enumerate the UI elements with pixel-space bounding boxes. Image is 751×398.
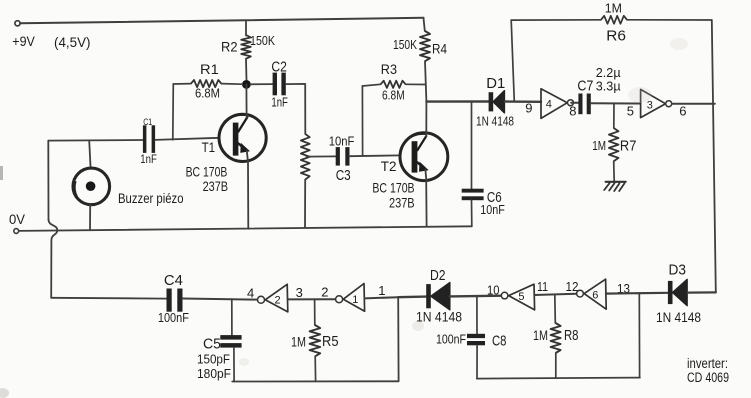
node R3 left drop junction [361, 86, 363, 156]
ground symbol [604, 182, 626, 191]
svg-text:Buzzer piézo: Buzzer piézo [118, 191, 184, 206]
label R2 [221, 38, 238, 54]
capacitor C6 [462, 189, 484, 201]
resistor R2 [241, 22, 251, 81]
wire C2 right to resistor drop [286, 84, 305, 134]
wire right feedback vertical [712, 20, 716, 292]
transistor T2 [400, 133, 448, 181]
label pin 6 [679, 104, 686, 119]
wire resistor to C3 [307, 155, 336, 157]
resistor R3 [362, 81, 425, 88]
label 0V [9, 211, 26, 227]
label pin 5 [627, 104, 634, 119]
resistor R8 branch [551, 295, 561, 378]
op-amp inverter U1B pins 5-6 [641, 89, 672, 117]
svg-text:6.8M: 6.8M [382, 89, 405, 103]
label 237B T2 [389, 194, 415, 210]
svg-text:237B: 237B [203, 178, 229, 194]
wire D2 to inverter pin 10 [450, 295, 502, 298]
svg-text:180pF: 180pF [197, 366, 231, 381]
svg-text:4: 4 [247, 285, 254, 300]
label (4,5V) [54, 34, 91, 50]
label R7 [620, 139, 637, 155]
svg-text:2: 2 [275, 295, 281, 307]
svg-text:C7: C7 [577, 79, 593, 95]
label 1M R5 [291, 333, 306, 349]
svg-text:R3: R3 [381, 61, 397, 77]
svg-text:11: 11 [537, 279, 548, 294]
capacitor C2 [273, 73, 286, 96]
label pin 12 [566, 279, 579, 294]
svg-text:T2: T2 [381, 158, 397, 174]
diode D2 [426, 283, 450, 310]
wire D1 to inverter U4 pin 9 [505, 100, 541, 103]
label C6 [487, 190, 502, 206]
svg-text:T1: T1 [202, 139, 216, 155]
label 150K R4 [393, 38, 418, 52]
resistor to 0V (unlabeled) [301, 134, 310, 180]
svg-text:C5: C5 [203, 337, 221, 353]
wire inverter 3 to pin 2 [288, 298, 336, 300]
label T1 [202, 139, 216, 155]
label pin 13 [617, 281, 630, 296]
wire dot to C2 [250, 83, 272, 85]
svg-text:3.3µ: 3.3µ [596, 80, 621, 94]
wire bottom-right rail [477, 378, 640, 379]
svg-text:1N 4148: 1N 4148 [476, 114, 514, 129]
capacitor C5 branch [231, 299, 233, 335]
label 6.8M R1 [195, 87, 220, 101]
label 10nF C6 [480, 203, 505, 217]
label C7 [577, 79, 593, 95]
label 10nF C3 [329, 135, 355, 149]
capacitor C7 [578, 94, 590, 115]
capacitor C8 [467, 334, 485, 346]
svg-text:C2: C2 [271, 59, 287, 75]
label 1N 4148 D1 [476, 114, 514, 129]
wire bottom-left rail [232, 297, 398, 381]
svg-text:R5: R5 [322, 334, 339, 350]
wire R1 left drop [172, 84, 175, 140]
capacitor C1 [143, 125, 155, 153]
label pin 4 [247, 285, 254, 300]
resistor R5 branch [310, 299, 321, 381]
svg-text:inverter:: inverter: [687, 356, 728, 371]
svg-text:1: 1 [352, 294, 358, 306]
svg-text:R4: R4 [432, 41, 447, 57]
svg-text:150K: 150K [393, 38, 418, 52]
wire D3 to feedback vertical [688, 291, 716, 293]
terminal +9V [15, 21, 20, 26]
wire T2 collector junction to D1 [426, 100, 488, 102]
wire pin13 drop to rail [638, 293, 640, 377]
svg-text:1N 4148: 1N 4148 [416, 310, 462, 325]
wire 0V rail [19, 226, 472, 231]
label pin 8 [569, 104, 576, 119]
svg-text:5: 5 [518, 291, 524, 303]
svg-text:237B: 237B [389, 194, 415, 210]
label T2 [381, 158, 397, 174]
label 150pF C5 [197, 352, 230, 367]
diode D1 [489, 91, 505, 113]
label R5 [322, 334, 339, 350]
wire C8 bottom [476, 345, 478, 378]
wire T1 collector [245, 84, 247, 117]
svg-text:1nF: 1nF [271, 95, 288, 109]
svg-text:C1: C1 [143, 117, 152, 128]
label pin 9 [525, 101, 532, 116]
resistor R6 [511, 16, 712, 24]
svg-text:6: 6 [679, 104, 686, 119]
wire T2 emitter to 0V [425, 170, 426, 227]
svg-text:1M: 1M [291, 333, 306, 349]
svg-text:1: 1 [378, 283, 385, 298]
wire R6 left drop to pin 9 node [511, 20, 514, 102]
svg-text:D3: D3 [669, 263, 687, 279]
label CD 4069 note [687, 370, 729, 385]
label C8 [492, 334, 507, 350]
svg-text:C8: C8 [492, 334, 507, 350]
capacitor C4 [167, 289, 183, 312]
svg-text:+9V: +9V [12, 33, 35, 49]
label 237B T1 [203, 178, 229, 194]
svg-text:100nF: 100nF [158, 310, 189, 325]
svg-text:BC 170B: BC 170B [372, 179, 414, 195]
capacitor C8 branch [476, 296, 478, 334]
svg-text:1M: 1M [592, 139, 606, 153]
terminal 0V [14, 229, 19, 234]
label C1 [143, 117, 152, 128]
capacitor C6 branch wire [471, 102, 473, 189]
label 1N 4148 D3 [656, 310, 701, 325]
svg-text:D2: D2 [430, 268, 446, 284]
svg-text:R6: R6 [606, 29, 626, 45]
label 100nF C8 [436, 332, 466, 347]
svg-text:CD 4069: CD 4069 [687, 370, 729, 385]
resistor R4 [420, 18, 430, 102]
wire T2 collector [425, 102, 427, 137]
label 1nF C2 [271, 95, 288, 109]
op-amp inverter U1C pins 13-12 [577, 279, 607, 309]
transistor T1 [219, 114, 266, 161]
label C5 [203, 337, 221, 353]
label +9V [12, 33, 35, 49]
svg-text:5: 5 [627, 104, 634, 119]
svg-text:10: 10 [487, 283, 500, 298]
svg-text:R8: R8 [564, 328, 579, 344]
label 1nF C1 [140, 152, 157, 166]
wire C3 to T2 base [350, 154, 401, 157]
label 1M R7 [592, 139, 606, 153]
wire inverter 8 to C7 [571, 102, 578, 104]
label BC 170B T1 [186, 164, 228, 180]
label 180pF C5 [197, 366, 231, 381]
svg-text:4: 4 [546, 98, 552, 110]
svg-text:10nF: 10nF [480, 203, 505, 217]
wire C1 to T1 base [155, 138, 219, 140]
label C4 [164, 273, 183, 289]
label BC 170B T2 [372, 179, 414, 195]
buzzer piezo [73, 168, 110, 205]
svg-text:3: 3 [296, 285, 303, 300]
label 1M R8 [533, 327, 548, 343]
label 100nF C4 [158, 310, 189, 325]
wire C7 to inverter pin 5 [591, 102, 641, 104]
wire inverter 13 to D3 [606, 292, 668, 295]
node junction dot R1/R2/C2/T1 [242, 80, 251, 89]
wire 0V branch to C4 [51, 297, 166, 300]
label R3 [381, 61, 397, 77]
svg-text:1M: 1M [605, 1, 622, 15]
svg-text:150pF: 150pF [197, 352, 230, 367]
label 1N 4148 D2 [416, 310, 462, 325]
op-amp inverter U1E pins 11-10 [501, 284, 534, 310]
wire +9V-row to C1 [48, 139, 142, 142]
label 1M R6 [605, 1, 622, 15]
svg-text:100nF: 100nF [436, 332, 466, 347]
wire D2 node to D2 [398, 295, 426, 298]
label pin 10 [487, 283, 500, 298]
svg-text:6: 6 [592, 289, 598, 301]
svg-text:R7: R7 [620, 139, 637, 155]
resistor R1 [174, 80, 243, 87]
svg-text:9: 9 [525, 101, 532, 116]
label R4 [432, 41, 447, 57]
label D2 [430, 268, 446, 284]
label D1 [486, 76, 505, 92]
svg-text:2: 2 [321, 285, 328, 300]
capacitor C3 [336, 147, 350, 166]
label R1 [200, 61, 219, 77]
svg-text:C3: C3 [336, 168, 351, 184]
label 6.8M R3 [382, 89, 405, 103]
label pin 1 [378, 283, 385, 298]
wire C5 bottom [233, 348, 235, 382]
wire inverter 1 output to D2 node [365, 297, 399, 298]
svg-text:8: 8 [569, 104, 576, 119]
capacitor C5 [220, 335, 241, 348]
label C3 [336, 168, 351, 184]
label 3.3u C7 [596, 80, 621, 94]
label 2.2u C7 [596, 66, 621, 80]
label pin 11 [537, 279, 548, 294]
label Buzzer piezo [118, 191, 184, 206]
wire T1 emitter to 0V [247, 151, 249, 229]
op-amp inverter U1A pins 3-4 [258, 284, 288, 312]
label R6 [606, 29, 626, 45]
svg-text:1nF: 1nF [140, 152, 157, 166]
label inverter note [687, 356, 728, 371]
svg-text:(4,5V): (4,5V) [54, 34, 91, 50]
wire buzzer bottom [89, 205, 91, 231]
label 150K R2 [250, 34, 276, 48]
wire inverter 6 to feedback vertical [672, 103, 715, 105]
wire C4 to inverter U2 pin 4 [183, 299, 257, 300]
wire C6 bottom to 0V rail [471, 200, 473, 226]
svg-text:150K: 150K [250, 34, 276, 48]
svg-text:2.2µ: 2.2µ [596, 66, 621, 80]
label R8 [564, 328, 579, 344]
label C2 [271, 59, 287, 75]
wire buzzer top [89, 140, 90, 168]
svg-text:0V: 0V [9, 211, 26, 227]
label pin 2 [321, 285, 328, 300]
svg-text:10nF: 10nF [329, 135, 355, 149]
wire left branch vertical with hop over 0V rail [48, 141, 57, 298]
wire inverter 11 to 12 [534, 294, 576, 295]
svg-text:1M: 1M [533, 327, 548, 343]
wire resistor bottom to 0V rail [304, 180, 306, 228]
diode D3 [668, 279, 687, 305]
svg-text:6.8M: 6.8M [195, 87, 220, 101]
op-amp inverter U1D pins 9-8 [541, 89, 574, 119]
label D3 [669, 263, 687, 279]
svg-text:D1: D1 [486, 76, 505, 92]
label pin 3 [296, 285, 303, 300]
svg-text:C4: C4 [164, 273, 183, 289]
op-amp inverter U1F pins 1-2 [336, 284, 365, 312]
resistor R7 branch [609, 103, 619, 181]
svg-text:1N 4148: 1N 4148 [656, 310, 701, 325]
svg-text:R2: R2 [221, 38, 238, 54]
wire top rail +9V [20, 18, 423, 24]
svg-text:R1: R1 [200, 61, 219, 77]
